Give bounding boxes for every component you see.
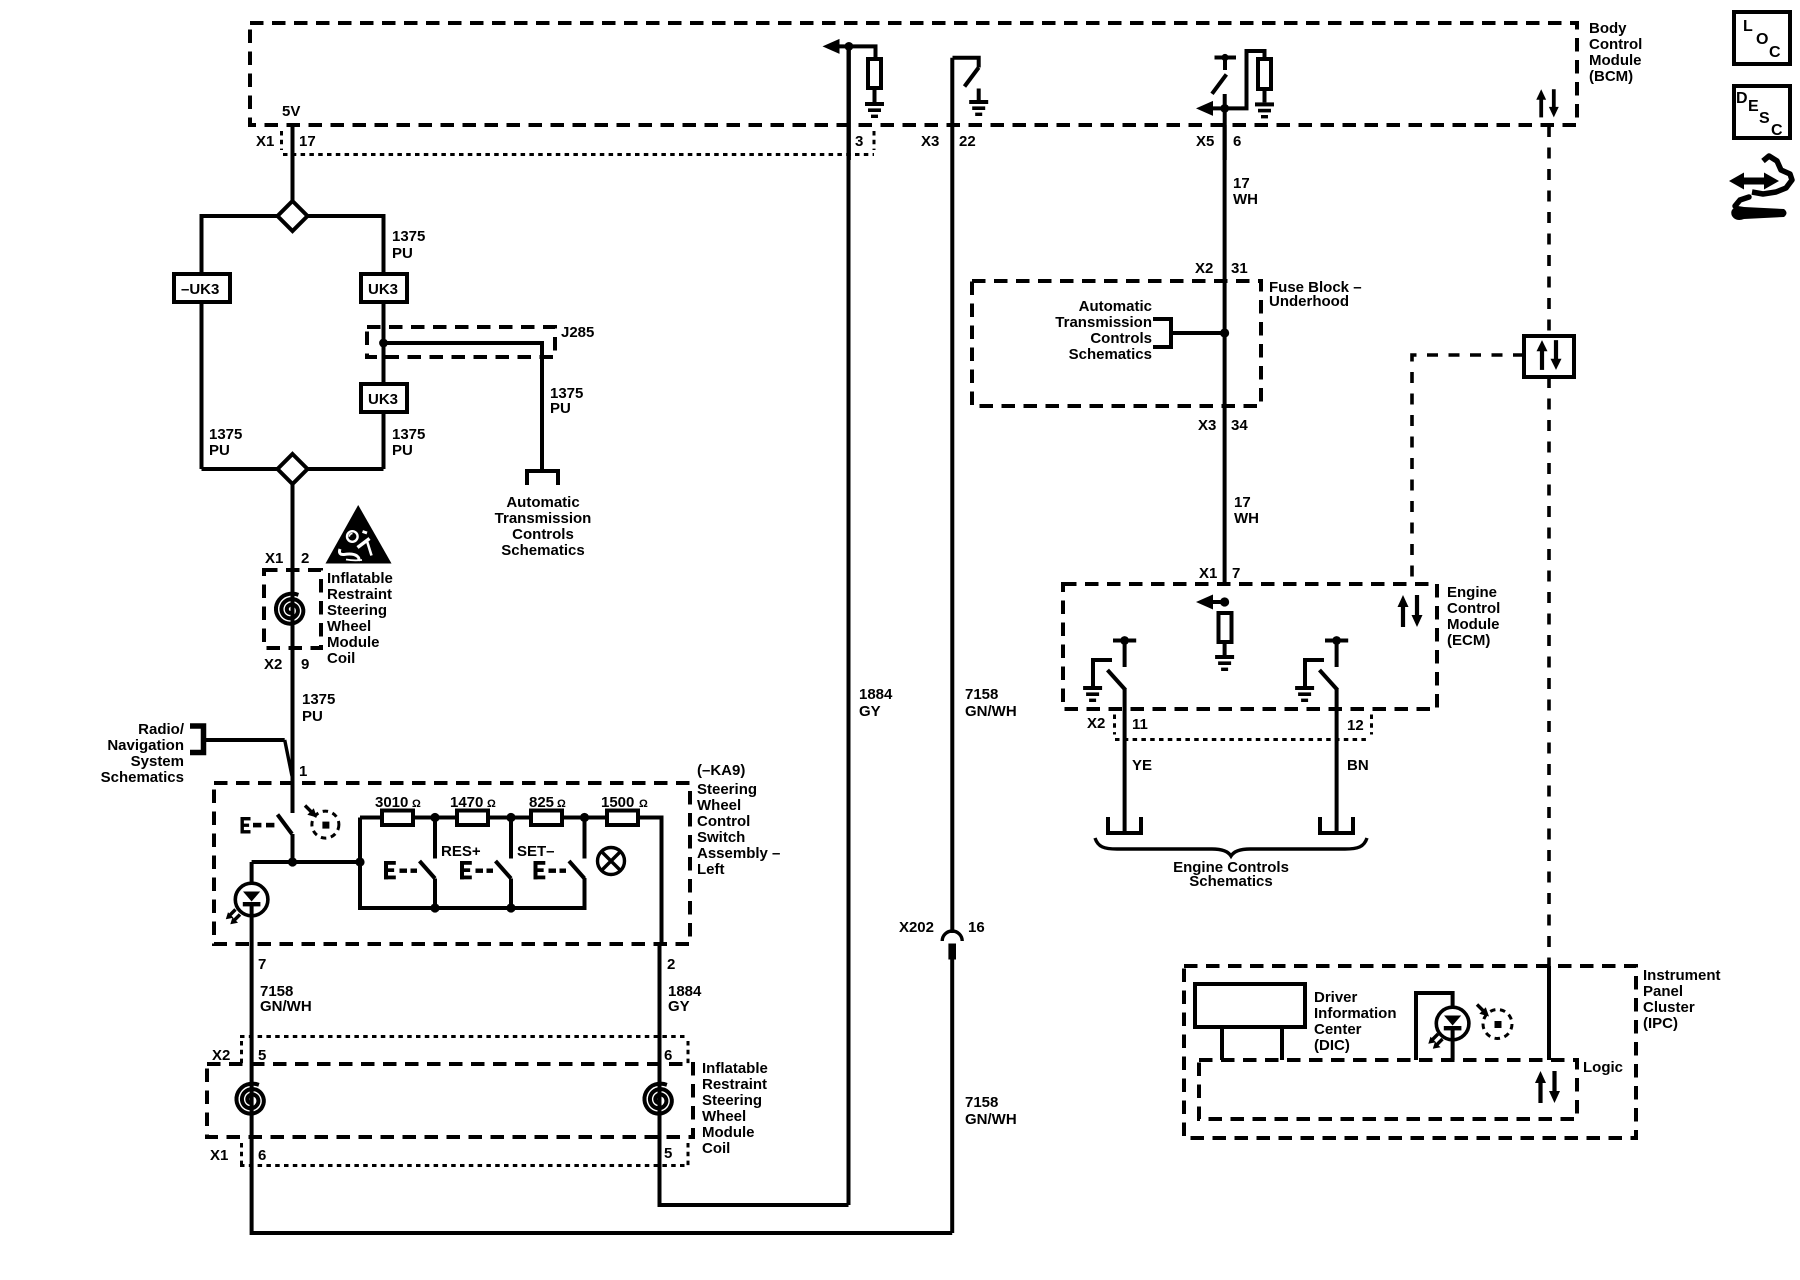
svg-text:17: 17 <box>299 133 316 150</box>
svg-text:Restraint: Restraint <box>327 586 392 603</box>
svg-text:Body: Body <box>1589 20 1627 37</box>
svg-text:Controls: Controls <box>1090 330 1152 347</box>
svg-text:Panel: Panel <box>1643 983 1683 1000</box>
svg-text:Automatic: Automatic <box>1079 298 1152 315</box>
svg-text:Schematics: Schematics <box>1069 346 1152 363</box>
svg-text:825: 825 <box>529 794 554 811</box>
svg-text:5: 5 <box>258 1047 266 1064</box>
svg-text:System: System <box>131 753 184 770</box>
svg-text:Inflatable: Inflatable <box>327 570 393 587</box>
svg-text:Ω: Ω <box>412 798 421 810</box>
svg-text:3: 3 <box>855 133 863 150</box>
svg-text:GY: GY <box>668 998 690 1015</box>
svg-text:(BCM): (BCM) <box>1589 68 1633 85</box>
svg-text:O: O <box>1756 31 1768 48</box>
svg-text:9: 9 <box>301 656 309 673</box>
svg-text:Ω: Ω <box>487 798 496 810</box>
svg-text:UK3: UK3 <box>368 391 398 408</box>
svg-text:2: 2 <box>667 956 675 973</box>
svg-text:Coil: Coil <box>702 1140 730 1157</box>
svg-text:RES+: RES+ <box>441 843 481 860</box>
svg-text:D: D <box>1736 90 1748 107</box>
svg-text:X1: X1 <box>1199 565 1217 582</box>
svg-text:6: 6 <box>1233 133 1241 150</box>
svg-text:Automatic: Automatic <box>506 494 579 511</box>
svg-text:YE: YE <box>1132 757 1152 774</box>
svg-text:Steering: Steering <box>697 781 757 798</box>
svg-text:Control: Control <box>1447 600 1500 617</box>
svg-text:34: 34 <box>1231 417 1248 434</box>
svg-text:PU: PU <box>550 400 571 417</box>
svg-text:X3: X3 <box>1198 417 1216 434</box>
svg-text:PU: PU <box>392 442 413 459</box>
svg-text:1: 1 <box>299 763 307 780</box>
svg-text:Restraint: Restraint <box>702 1076 767 1093</box>
svg-text:Module: Module <box>1447 616 1500 633</box>
svg-text:1375: 1375 <box>302 691 335 708</box>
svg-text:Module: Module <box>702 1124 755 1141</box>
svg-text:PU: PU <box>209 442 230 459</box>
svg-text:16: 16 <box>968 919 985 936</box>
svg-text:X1: X1 <box>256 133 274 150</box>
svg-text:2: 2 <box>301 550 309 567</box>
svg-text:WH: WH <box>1234 510 1259 527</box>
svg-text:3010: 3010 <box>375 794 408 811</box>
svg-text:31: 31 <box>1231 260 1248 277</box>
svg-text:Transmission: Transmission <box>495 510 592 527</box>
svg-text:Wheel: Wheel <box>327 618 371 635</box>
svg-text:(IPC): (IPC) <box>1643 1015 1678 1032</box>
svg-text:Engine: Engine <box>1447 584 1497 601</box>
svg-text:J285: J285 <box>561 324 594 341</box>
svg-text:Steering: Steering <box>702 1092 762 1109</box>
svg-text:Center: Center <box>1314 1021 1362 1038</box>
svg-text:(ECM): (ECM) <box>1447 632 1490 649</box>
svg-text:Module: Module <box>327 634 380 651</box>
svg-text:Switch: Switch <box>697 829 745 846</box>
svg-text:Module: Module <box>1589 52 1642 69</box>
svg-text:Schematics: Schematics <box>101 769 184 786</box>
svg-text:Wheel: Wheel <box>697 797 741 814</box>
svg-text:1470: 1470 <box>450 794 483 811</box>
svg-text:GN/WH: GN/WH <box>965 1111 1017 1128</box>
svg-text:BN: BN <box>1347 757 1369 774</box>
svg-text:GN/WH: GN/WH <box>965 703 1017 720</box>
svg-text:Schematics: Schematics <box>1189 873 1272 890</box>
svg-text:GN/WH: GN/WH <box>260 998 312 1015</box>
svg-text:L: L <box>1743 18 1753 35</box>
svg-text:Ω: Ω <box>639 798 648 810</box>
svg-text:Schematics: Schematics <box>501 542 584 559</box>
svg-text:11: 11 <box>1132 716 1148 733</box>
svg-text:X1: X1 <box>265 550 283 567</box>
svg-text:S: S <box>1759 110 1770 127</box>
svg-text:X2: X2 <box>212 1047 230 1064</box>
svg-text:Ω: Ω <box>557 798 566 810</box>
svg-text:Underhood: Underhood <box>1269 293 1349 310</box>
svg-text:5V: 5V <box>282 103 300 120</box>
svg-text:Left: Left <box>697 861 725 878</box>
svg-text:PU: PU <box>392 245 413 262</box>
svg-text:22: 22 <box>959 133 976 150</box>
svg-text:1375: 1375 <box>392 426 425 443</box>
svg-text:1500: 1500 <box>601 794 634 811</box>
svg-text:Instrument: Instrument <box>1643 967 1721 984</box>
svg-text:UK3: UK3 <box>368 281 398 298</box>
svg-text:1375: 1375 <box>392 228 425 245</box>
svg-text:Controls: Controls <box>512 526 574 543</box>
svg-text:WH: WH <box>1233 191 1258 208</box>
svg-text:X1: X1 <box>210 1147 228 1164</box>
svg-text:6: 6 <box>664 1047 672 1064</box>
svg-text:Driver: Driver <box>1314 989 1358 1006</box>
svg-text:1375: 1375 <box>209 426 242 443</box>
svg-text:(DIC): (DIC) <box>1314 1037 1350 1054</box>
svg-text:Control: Control <box>697 813 750 830</box>
svg-text:7158: 7158 <box>965 686 998 703</box>
svg-text:Coil: Coil <box>327 650 355 667</box>
svg-text:X2: X2 <box>1195 260 1213 277</box>
svg-text:X202: X202 <box>899 919 934 936</box>
svg-text:17: 17 <box>1233 175 1250 192</box>
svg-text:C: C <box>1771 122 1783 139</box>
svg-text:Navigation: Navigation <box>107 737 184 754</box>
svg-text:X5: X5 <box>1196 133 1214 150</box>
svg-text:Information: Information <box>1314 1005 1397 1022</box>
svg-text:Transmission: Transmission <box>1055 314 1152 331</box>
svg-text:Radio/: Radio/ <box>138 721 185 738</box>
svg-text:Inflatable: Inflatable <box>702 1060 768 1077</box>
svg-text:Wheel: Wheel <box>702 1108 746 1125</box>
svg-text:E: E <box>1748 98 1759 115</box>
svg-text:X3: X3 <box>921 133 939 150</box>
svg-text:12: 12 <box>1347 717 1364 734</box>
svg-text:GY: GY <box>859 703 881 720</box>
svg-text:X2: X2 <box>264 656 282 673</box>
svg-text:7: 7 <box>1232 565 1240 582</box>
svg-text:X2: X2 <box>1087 715 1105 732</box>
svg-text:1884: 1884 <box>859 686 893 703</box>
svg-text:C: C <box>1769 44 1781 61</box>
svg-text:7: 7 <box>258 956 266 973</box>
svg-text:SET–: SET– <box>517 843 555 860</box>
svg-text:7158: 7158 <box>965 1094 998 1111</box>
svg-text:6: 6 <box>258 1147 266 1164</box>
svg-text:Control: Control <box>1589 36 1642 53</box>
svg-text:17: 17 <box>1234 494 1251 511</box>
svg-text:Steering: Steering <box>327 602 387 619</box>
svg-text:5: 5 <box>664 1145 672 1162</box>
svg-text:(–KA9): (–KA9) <box>697 762 745 779</box>
svg-text:Logic: Logic <box>1583 1059 1623 1076</box>
svg-text:Cluster: Cluster <box>1643 999 1695 1016</box>
svg-text:–UK3: –UK3 <box>181 281 219 298</box>
svg-text:PU: PU <box>302 708 323 725</box>
svg-text:Assembly –: Assembly – <box>697 845 780 862</box>
